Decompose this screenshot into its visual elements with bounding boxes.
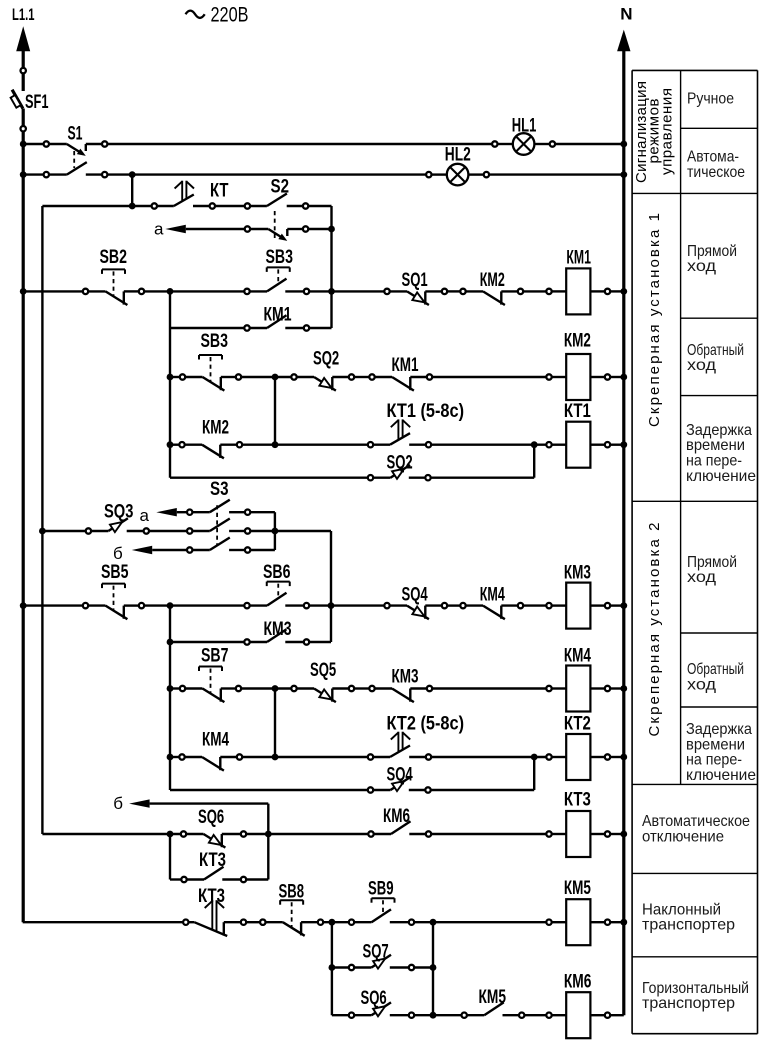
svg-text:SQ3: SQ3 [104,501,134,523]
svg-text:ход: ход [687,677,717,694]
svg-text:КМ4: КМ4 [480,583,505,605]
svg-text:КМ2: КМ2 [564,330,591,352]
svg-text:ключение: ключение [686,468,756,485]
svg-text:КМ4: КМ4 [564,645,591,667]
svg-text:SQ4: SQ4 [402,583,428,605]
svg-text:N: N [620,5,632,24]
svg-text:SB5: SB5 [101,561,129,583]
svg-text:КТ1: КТ1 [564,400,591,422]
svg-text:КТ1 (5-8с): КТ1 (5-8с) [387,400,465,422]
svg-text:транспортер: транспортер [642,995,735,1012]
svg-text:SF1: SF1 [25,91,49,113]
svg-text:SB2: SB2 [100,246,128,268]
svg-text:отключение: отключение [642,828,724,845]
svg-text:SQ5: SQ5 [310,659,336,681]
svg-text:S3: S3 [210,478,229,500]
svg-text:SB8: SB8 [279,881,305,903]
svg-text:КМ2: КМ2 [480,269,505,291]
svg-text:КТ2 (5-8с): КТ2 (5-8с) [387,713,465,735]
svg-text:L1.1: L1.1 [12,5,35,24]
svg-text:SB3: SB3 [266,246,294,268]
svg-text:КМ1: КМ1 [566,246,591,268]
svg-text:Скреперная установка 2: Скреперная установка 2 [646,523,663,737]
svg-text:КМ3: КМ3 [392,666,419,688]
svg-text:КТ: КТ [210,180,229,202]
svg-text:КМ6: КМ6 [383,805,410,827]
svg-text:SQ7: SQ7 [363,941,389,963]
svg-text:ход: ход [687,569,717,586]
svg-text:SB3: SB3 [201,330,229,352]
svg-text:КМ2: КМ2 [202,417,229,439]
svg-text:ключение: ключение [686,767,756,784]
svg-text:SQ6: SQ6 [361,987,387,1009]
svg-text:КМ3: КМ3 [564,561,591,583]
svg-text:ход: ход [687,258,717,275]
svg-text:SB7: SB7 [201,645,229,667]
svg-text:б: б [113,794,123,813]
svg-text:КТ3: КТ3 [564,789,591,811]
svg-text:КМ4: КМ4 [202,729,229,751]
svg-text:транспортер: транспортер [642,917,735,934]
svg-text:SQ2: SQ2 [387,451,413,473]
svg-text:HL2: HL2 [445,144,471,166]
svg-text:КМ1: КМ1 [264,304,292,326]
svg-text:SQ1: SQ1 [402,269,428,291]
svg-text:управления: управления [659,88,676,175]
svg-text:КТ3: КТ3 [199,849,226,871]
svg-text:КМ5: КМ5 [479,986,507,1008]
svg-text:SQ6: SQ6 [198,806,224,828]
svg-text:а: а [140,506,150,525]
svg-text:КМ6: КМ6 [564,970,592,992]
svg-text:220В: 220В [211,3,249,27]
svg-text:КТ2: КТ2 [564,713,591,735]
svg-text:SB6: SB6 [263,561,291,583]
svg-text:а: а [154,219,164,238]
svg-text:HL1: HL1 [512,115,537,137]
svg-text:SB9: SB9 [368,878,394,900]
svg-text:ход: ход [687,357,717,374]
svg-text:Ручное: Ручное [687,91,734,108]
svg-text:КМ1: КМ1 [392,354,419,376]
svg-text:SQ4: SQ4 [387,764,413,786]
svg-text:КМ3: КМ3 [264,618,292,640]
svg-text:КТ3: КТ3 [198,885,225,907]
svg-text:тическое: тическое [687,164,745,181]
svg-text:S1: S1 [68,122,83,144]
svg-text:Скреперная установка 1: Скреперная установка 1 [646,213,663,427]
svg-text:КМ5: КМ5 [564,877,591,899]
svg-text:SQ2: SQ2 [313,348,339,370]
svg-text:S2: S2 [271,175,290,197]
